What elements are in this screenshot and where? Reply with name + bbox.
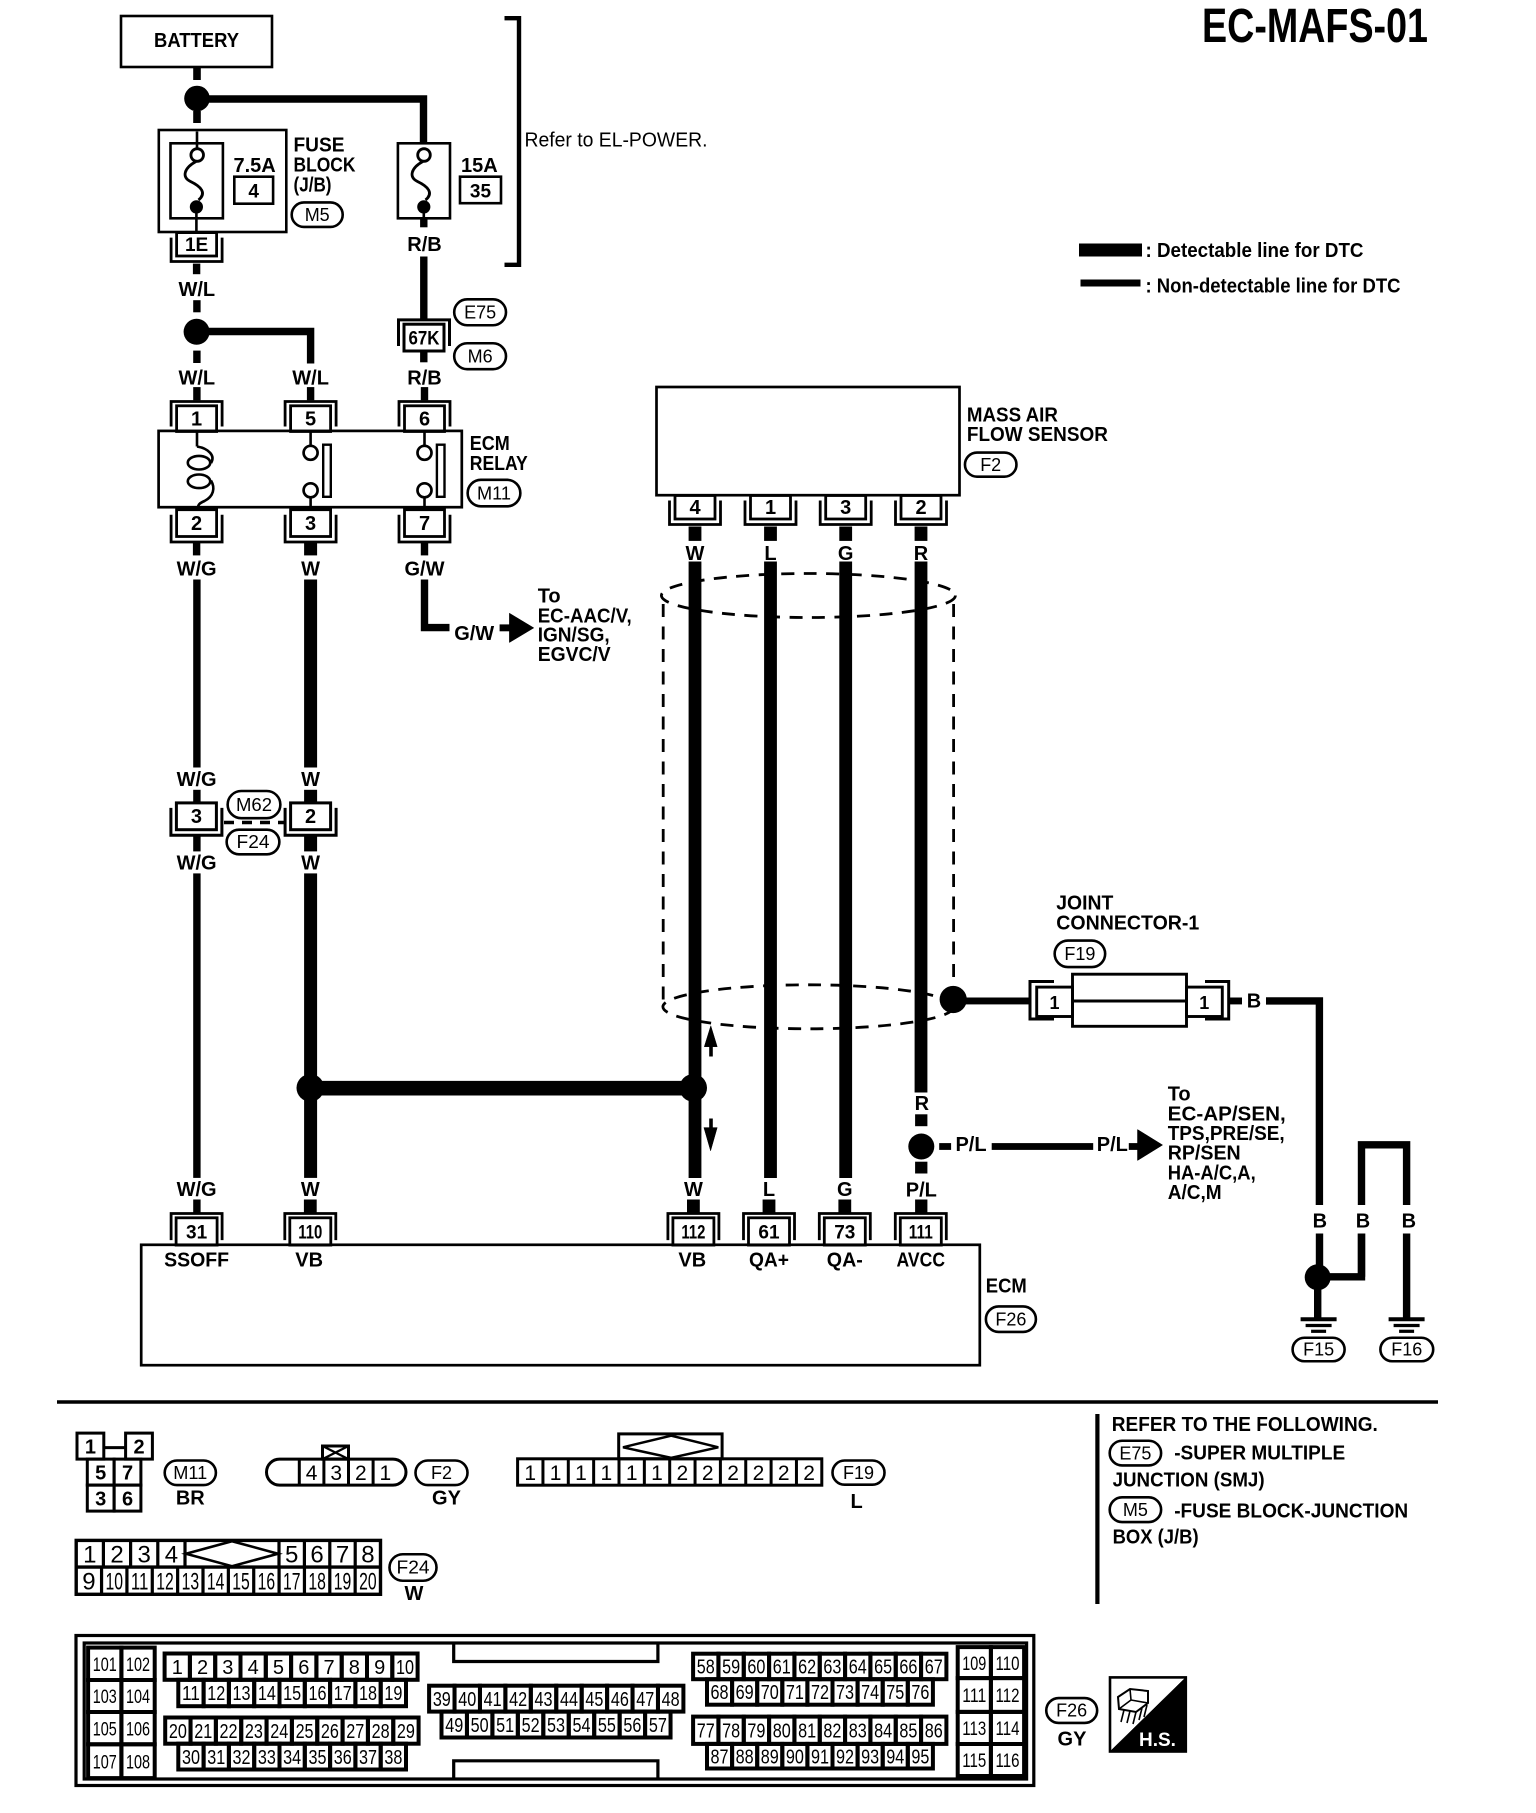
connector F16 oval (1380, 1338, 1433, 1362)
connector F24 key diamond (186, 1541, 278, 1566)
connector F26 cells 11-19 (178, 1680, 203, 1706)
svg-text:26: 26 (321, 1721, 339, 1743)
svg-text:70: 70 (761, 1682, 779, 1704)
wire R stub below MAFS pin 2 (915, 527, 928, 541)
junction ground node (1305, 1264, 1331, 1290)
svg-text:QA+: QA+ (749, 1249, 789, 1271)
svg-text:R/B: R/B (407, 368, 441, 390)
svg-text:3: 3 (840, 497, 851, 519)
svg-text:REFER TO THE FOLLOWING.: REFER TO THE FOLLOWING. (1112, 1414, 1378, 1436)
wire L stub above ECM pin 61 (763, 1200, 776, 1214)
svg-text:1: 1 (380, 1462, 392, 1485)
wire W/L stub above relay pin 1 (193, 387, 200, 400)
svg-text:W/G: W/G (177, 852, 217, 874)
svg-text:EGVC/V: EGVC/V (538, 644, 612, 666)
svg-text:19: 19 (334, 1569, 352, 1596)
svg-text:B: B (1247, 991, 1261, 1013)
connector F26 cells 1-10 (165, 1654, 190, 1680)
svg-text:46: 46 (611, 1689, 629, 1711)
svg-text:111: 111 (962, 1686, 986, 1707)
svg-text:2: 2 (915, 497, 926, 519)
wire R dash below junction (915, 1162, 927, 1174)
svg-text:71: 71 (786, 1682, 804, 1704)
MAFS pin 2 (901, 496, 941, 520)
junction battery node (184, 86, 210, 112)
svg-text:4: 4 (248, 182, 259, 203)
fuse number 35 box (460, 177, 501, 204)
svg-text:13: 13 (182, 1569, 200, 1596)
dashed link between connector 3 and 2 (224, 821, 285, 824)
svg-text:17: 17 (283, 1569, 301, 1596)
relay pin 1 (177, 406, 217, 432)
wire W/G stub above ECM pin 31 (193, 1200, 200, 1214)
svg-text:87: 87 (711, 1746, 729, 1768)
svg-text:1: 1 (600, 1462, 612, 1485)
svg-text:112: 112 (681, 1222, 705, 1243)
svg-text:62: 62 (798, 1657, 816, 1679)
svg-text:To: To (538, 586, 561, 608)
wire W relay to connector 2 (304, 580, 317, 768)
legend detectable line sample (1079, 244, 1142, 257)
connector F19 key diamond box (619, 1434, 722, 1459)
svg-text:BOX (J/B): BOX (J/B) (1113, 1527, 1199, 1549)
ECM pin 111 (900, 1218, 941, 1245)
wire B bridge (1362, 1145, 1407, 1205)
wire R/B stub above relay pin 6 (421, 387, 428, 400)
svg-text:33: 33 (258, 1747, 276, 1769)
svg-text:15: 15 (283, 1683, 301, 1705)
svg-text:7: 7 (419, 513, 430, 535)
svg-text:2: 2 (702, 1462, 714, 1485)
svg-text:73: 73 (834, 1222, 855, 1243)
wire P/L stub above ECM pin 111 (915, 1200, 927, 1214)
svg-text:GY: GY (1058, 1729, 1088, 1751)
svg-text:6: 6 (298, 1657, 309, 1679)
svg-text:3: 3 (305, 513, 316, 535)
in-line connector 3 (M62/F24) (176, 803, 216, 830)
svg-text:113: 113 (962, 1719, 986, 1740)
svg-text:(J/B): (J/B) (294, 175, 332, 197)
svg-text:47: 47 (636, 1689, 654, 1711)
svg-text:2: 2 (191, 513, 202, 535)
svg-text:88: 88 (736, 1746, 754, 1768)
svg-text:1: 1 (765, 497, 776, 519)
bracket refer to EL-POWER (505, 18, 520, 265)
wire P/L dash right of junction (939, 1143, 951, 1150)
arrow down on W wire (709, 1119, 713, 1130)
svg-text:37: 37 (359, 1747, 377, 1769)
connector F26 cells 87-95 (707, 1744, 732, 1769)
svg-text:8: 8 (349, 1657, 360, 1679)
svg-text:W/L: W/L (178, 279, 215, 301)
svg-text:94: 94 (886, 1746, 904, 1768)
svg-text:B: B (1402, 1211, 1416, 1233)
svg-text:2: 2 (133, 1437, 144, 1459)
svg-text:5: 5 (305, 408, 316, 430)
svg-text:102: 102 (126, 1655, 150, 1676)
svg-text:44: 44 (560, 1689, 578, 1711)
svg-text:1: 1 (1199, 993, 1209, 1013)
svg-text:1: 1 (85, 1437, 96, 1459)
wire B junction to ground F15 (1314, 1288, 1321, 1320)
connector F26 right grid (958, 1647, 991, 1678)
svg-text:7: 7 (122, 1463, 133, 1485)
wire W/L dash below junction (193, 351, 200, 363)
wire L stub below MAFS pin 1 (764, 527, 777, 541)
svg-text:G/W: G/W (405, 558, 445, 580)
svg-text:VB: VB (295, 1249, 323, 1271)
wire R/B stub below fuse 35 (420, 218, 427, 227)
svg-text:51: 51 (496, 1715, 514, 1737)
svg-text:9: 9 (374, 1657, 385, 1679)
svg-text:101: 101 (93, 1655, 117, 1676)
relay pin 6 (405, 406, 445, 432)
connector F19 oval bottom (833, 1461, 885, 1485)
connector F26 cells 77-86 (693, 1717, 718, 1744)
svg-text:W/G: W/G (177, 769, 217, 791)
svg-text:P/L: P/L (1097, 1134, 1128, 1156)
separator vertical line (1095, 1414, 1099, 1604)
svg-text:F24: F24 (397, 1558, 430, 1578)
svg-text:G/W: G/W (454, 623, 494, 645)
svg-text:2: 2 (727, 1462, 739, 1485)
svg-text:81: 81 (798, 1720, 816, 1742)
wire W/G connector 3 to ECM (193, 873, 200, 1178)
svg-text:110: 110 (996, 1654, 1020, 1675)
svg-text:112: 112 (996, 1686, 1020, 1707)
svg-text:E75: E75 (464, 303, 496, 323)
svg-text:1E: 1E (185, 235, 208, 256)
svg-text:22: 22 (220, 1721, 238, 1743)
svg-text:F24: F24 (237, 832, 270, 852)
svg-text:2: 2 (778, 1462, 790, 1485)
junction R/PL node (908, 1134, 934, 1160)
svg-text:76: 76 (911, 1682, 929, 1704)
svg-text:4: 4 (165, 1542, 178, 1569)
svg-text:85: 85 (899, 1720, 917, 1742)
wire W connector 2 to ECM (304, 873, 317, 1178)
svg-text:35: 35 (470, 181, 492, 202)
svg-text:W: W (301, 1179, 320, 1201)
svg-text:106: 106 (126, 1719, 150, 1740)
wire R dash above junction (915, 1114, 927, 1126)
svg-text:4: 4 (689, 497, 701, 519)
svg-text:16: 16 (258, 1569, 276, 1596)
shield junction node (940, 986, 967, 1013)
svg-text:84: 84 (874, 1720, 892, 1742)
svg-text:1: 1 (575, 1462, 587, 1485)
svg-text:67: 67 (925, 1657, 943, 1679)
svg-text:41: 41 (484, 1689, 502, 1711)
wire G stub below MAFS pin 3 (839, 527, 852, 541)
connector F26 cells 39-48 (429, 1686, 454, 1712)
wire W/L dash (193, 300, 200, 312)
wire B left to ground junction (1316, 1234, 1323, 1267)
svg-text:9: 9 (82, 1569, 95, 1596)
relay coil (196, 432, 199, 447)
svg-text:7: 7 (323, 1657, 334, 1679)
svg-text:115: 115 (962, 1751, 986, 1772)
shield top ellipse (661, 574, 955, 618)
connector M11 oval (468, 480, 521, 507)
svg-text:IGN/SG,: IGN/SG, (538, 624, 610, 646)
svg-text:: Non-detectable line for DTC: : Non-detectable line for DTC (1146, 276, 1401, 298)
svg-text:95: 95 (911, 1746, 929, 1768)
connector view F24 grid (76, 1540, 380, 1594)
svg-text:61: 61 (758, 1222, 780, 1243)
svg-text:42: 42 (509, 1689, 527, 1711)
svg-text:12: 12 (207, 1683, 225, 1705)
wire R/B stub below 67K (420, 351, 427, 362)
svg-text:86: 86 (925, 1720, 943, 1742)
svg-text:: Detectable line for DTC: : Detectable line for DTC (1146, 240, 1364, 262)
svg-text:54: 54 (572, 1715, 590, 1737)
svg-text:18: 18 (359, 1683, 377, 1705)
arrow up on W wire (709, 1046, 713, 1057)
ECM pin 73 (824, 1218, 865, 1245)
ECM box (141, 1245, 980, 1365)
svg-text:34: 34 (283, 1747, 301, 1769)
svg-text:11: 11 (182, 1683, 200, 1705)
svg-text:M62: M62 (236, 795, 272, 815)
svg-text:40: 40 (458, 1689, 476, 1711)
separator horizontal line (57, 1400, 1438, 1404)
svg-text:108: 108 (126, 1752, 150, 1773)
svg-text:73: 73 (836, 1682, 854, 1704)
svg-text:3: 3 (95, 1489, 106, 1511)
svg-text:W: W (684, 1179, 703, 1201)
svg-text:F15: F15 (1303, 1340, 1334, 1360)
svg-text:56: 56 (623, 1715, 641, 1737)
svg-text:38: 38 (384, 1747, 402, 1769)
ground F16 (1389, 1317, 1425, 1321)
svg-text:1: 1 (172, 1657, 183, 1679)
svg-text:L: L (763, 1179, 775, 1201)
svg-text:CONNECTOR-1: CONNECTOR-1 (1056, 913, 1199, 935)
svg-text:103: 103 (93, 1687, 117, 1708)
MAFS pin 4 (675, 496, 715, 520)
connector F26 cells 30-38 (178, 1744, 203, 1770)
svg-text:ECM: ECM (986, 1276, 1027, 1298)
svg-text:AVCC: AVCC (897, 1249, 946, 1271)
svg-text:L: L (850, 1491, 862, 1513)
in-line connector 2 (M62/F24) (291, 803, 331, 830)
svg-text:79: 79 (747, 1720, 765, 1742)
svg-text:FLOW SENSOR: FLOW SENSOR (967, 424, 1109, 446)
connector F26 oval bottom (1046, 1698, 1097, 1723)
relay M11 box (159, 431, 462, 507)
svg-text:M6: M6 (468, 346, 493, 366)
svg-text:5: 5 (285, 1542, 298, 1569)
wire G/W stub below relay pin 7 (421, 542, 428, 556)
wire W stub below connector 2 (304, 836, 317, 852)
wire W stub above ECM pin 110 (304, 1200, 317, 1214)
wire W stub above ECM pin 112 (687, 1200, 700, 1214)
connector F2 key box (323, 1446, 349, 1459)
connector F26 oval (986, 1306, 1036, 1332)
svg-text:5: 5 (95, 1463, 106, 1485)
arrow to EC-AAC/V (500, 624, 512, 631)
svg-text:57: 57 (649, 1715, 667, 1737)
svg-text:EC-MAFS-01: EC-MAFS-01 (1202, 0, 1428, 53)
connector view M11 grid (77, 1433, 104, 1459)
svg-text:17: 17 (334, 1683, 352, 1705)
joint connector pin 1 right (1187, 987, 1223, 1016)
wire W/G stub above connector 3 (193, 790, 200, 804)
svg-text:ECM: ECM (470, 433, 510, 455)
connector F26 left grid (88, 1648, 121, 1680)
svg-text:69: 69 (736, 1682, 754, 1704)
svg-text:Refer to EL-POWER.: Refer to EL-POWER. (525, 130, 708, 152)
svg-text:78: 78 (722, 1720, 740, 1742)
connector 67K (SMJ) (404, 324, 444, 351)
shield bottom ellipse (663, 985, 954, 1029)
svg-text:W: W (405, 1583, 424, 1605)
svg-text:36: 36 (334, 1747, 352, 1769)
wire W stub above connector 2 (304, 790, 317, 803)
junction W node left (297, 1074, 325, 1102)
svg-text:RELAY: RELAY (470, 453, 529, 475)
svg-text:W/G: W/G (177, 1179, 217, 1201)
svg-text:67K: 67K (409, 328, 440, 349)
wire W/L stub above relay pin 5 (307, 387, 314, 400)
wire W stub below relay pin 3 (304, 542, 317, 556)
connector F24 oval (227, 830, 280, 855)
legend non-detectable line sample (1081, 280, 1141, 287)
ECM pin 61 (749, 1218, 790, 1245)
svg-text:To: To (1168, 1084, 1191, 1106)
connector M62 oval (228, 791, 281, 818)
svg-text:60: 60 (747, 1657, 765, 1679)
svg-text:82: 82 (823, 1720, 841, 1742)
svg-text:49: 49 (445, 1715, 463, 1737)
svg-text:4: 4 (306, 1462, 318, 1485)
wire junction to fuse 35 (horizontal) (197, 99, 424, 143)
svg-text:14: 14 (258, 1683, 276, 1705)
connector M5 oval (292, 202, 343, 227)
svg-text:32: 32 (233, 1747, 251, 1769)
shield right dashed edge (952, 604, 955, 997)
connector view F26 outer box (76, 1636, 1034, 1786)
svg-text:1: 1 (550, 1462, 562, 1485)
connector 1E (177, 233, 217, 256)
svg-text:104: 104 (126, 1687, 150, 1708)
svg-text:BATTERY: BATTERY (154, 30, 240, 52)
svg-text:10: 10 (105, 1569, 123, 1596)
svg-text:14: 14 (207, 1569, 225, 1596)
connector F2 oval bottom (416, 1461, 468, 1486)
svg-text:F16: F16 (1391, 1340, 1422, 1360)
connector F19 oval (1055, 941, 1106, 968)
svg-text:P/L: P/L (906, 1180, 937, 1202)
svg-text:1: 1 (191, 408, 202, 430)
svg-text:20: 20 (169, 1721, 187, 1743)
svg-text:77: 77 (697, 1720, 715, 1742)
relay pin 5 (291, 406, 331, 432)
svg-text:24: 24 (270, 1721, 288, 1743)
svg-text:63: 63 (823, 1657, 841, 1679)
svg-text:75: 75 (886, 1682, 904, 1704)
svg-text:18: 18 (308, 1569, 326, 1596)
svg-text:7: 7 (336, 1542, 349, 1569)
svg-text:4: 4 (248, 1657, 259, 1679)
svg-text:90: 90 (786, 1746, 804, 1768)
svg-text:31: 31 (207, 1747, 225, 1769)
connector F26 cells 20-29 (165, 1718, 190, 1744)
svg-text:F26: F26 (1056, 1701, 1087, 1721)
svg-text:G: G (837, 1179, 853, 1201)
junction W node right (679, 1074, 707, 1102)
svg-text:2: 2 (305, 806, 316, 828)
svg-text:7.5A: 7.5A (234, 155, 276, 177)
joint connector left bracket (1030, 982, 1054, 1020)
battery (121, 16, 272, 67)
svg-text:RP/SEN: RP/SEN (1168, 1143, 1241, 1165)
connector M6 oval (454, 343, 506, 369)
svg-text:BLOCK: BLOCK (294, 155, 356, 177)
wire W stub below MAFS pin 4 (689, 527, 702, 541)
ECM pin 110 (290, 1218, 331, 1245)
svg-text:P/L: P/L (955, 1134, 986, 1156)
svg-text:116: 116 (996, 1751, 1020, 1772)
svg-text:2: 2 (803, 1462, 815, 1485)
svg-text:13: 13 (233, 1683, 251, 1705)
joint connector body (1073, 974, 1187, 1026)
svg-text:3: 3 (138, 1542, 151, 1569)
svg-text:19: 19 (384, 1683, 402, 1705)
svg-text:68: 68 (711, 1682, 729, 1704)
wire P/L horizontal (992, 1143, 1093, 1150)
svg-text:11: 11 (131, 1569, 149, 1596)
svg-text:F26: F26 (995, 1309, 1026, 1329)
svg-text:21: 21 (194, 1721, 212, 1743)
svg-text:H.S.: H.S. (1139, 1730, 1176, 1751)
svg-text:-SUPER MULTIPLE: -SUPER MULTIPLE (1174, 1443, 1345, 1465)
connector F26 bottom notch (454, 1761, 658, 1778)
connector F26 cells 49-57 (442, 1712, 467, 1738)
svg-text:W: W (301, 558, 320, 580)
svg-text:50: 50 (471, 1715, 489, 1737)
svg-text:FUSE: FUSE (294, 135, 345, 157)
svg-text:1: 1 (626, 1462, 638, 1485)
svg-text:MASS AIR: MASS AIR (967, 404, 1059, 426)
svg-text:6: 6 (310, 1542, 323, 1569)
svg-text:F2: F2 (980, 455, 1001, 475)
arrow to EC-AP/SEN (1129, 1143, 1139, 1150)
svg-text:-FUSE BLOCK-JUNCTION: -FUSE BLOCK-JUNCTION (1174, 1501, 1408, 1523)
svg-text:B: B (1356, 1211, 1370, 1233)
relay pin 3 (291, 510, 331, 537)
svg-text:GY: GY (432, 1487, 462, 1509)
svg-text:30: 30 (182, 1747, 200, 1769)
wire L MAFS to ECM (764, 562, 777, 1179)
relay contact 5-3 (309, 432, 312, 446)
svg-text:SSOFF: SSOFF (164, 1249, 229, 1271)
svg-text:93: 93 (861, 1746, 879, 1768)
svg-text:R/B: R/B (407, 234, 441, 256)
shield left dashed edge (662, 604, 665, 1000)
svg-text:W: W (301, 852, 320, 874)
fuse 15A symbol (398, 143, 450, 218)
svg-text:10: 10 (396, 1657, 414, 1679)
svg-text:27: 27 (346, 1721, 364, 1743)
svg-text:53: 53 (547, 1715, 565, 1737)
wire G MAFS to ECM (839, 562, 852, 1179)
svg-text:110: 110 (298, 1222, 322, 1243)
connector F26 cells 68-76 (707, 1679, 732, 1705)
svg-text:VB: VB (678, 1249, 706, 1271)
connector F24 oval bottom (390, 1554, 437, 1581)
